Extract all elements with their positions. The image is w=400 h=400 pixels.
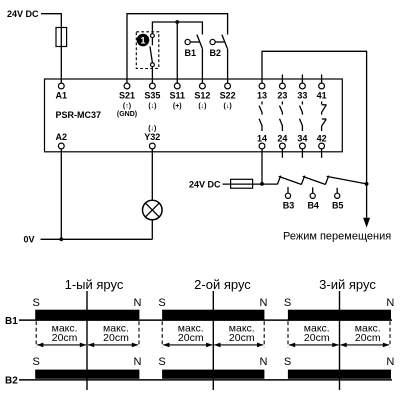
svg-text:S: S bbox=[33, 297, 40, 309]
svg-text:20cm: 20cm bbox=[304, 332, 330, 344]
svg-text:23: 23 bbox=[277, 91, 287, 101]
svg-text:N: N bbox=[386, 297, 394, 309]
svg-text:S: S bbox=[33, 356, 40, 368]
svg-text:20cm: 20cm bbox=[52, 332, 78, 344]
svg-text:24V DC: 24V DC bbox=[7, 9, 39, 19]
svg-text:A2: A2 bbox=[56, 132, 68, 142]
svg-text:N: N bbox=[260, 297, 268, 309]
svg-text:1: 1 bbox=[140, 35, 145, 45]
svg-text:(↓): (↓) bbox=[224, 103, 232, 110]
svg-text:41: 41 bbox=[317, 91, 327, 101]
svg-text:20cm: 20cm bbox=[229, 332, 255, 344]
svg-text:B5: B5 bbox=[332, 201, 344, 211]
svg-text:S: S bbox=[284, 356, 291, 368]
svg-text:42: 42 bbox=[317, 134, 327, 144]
svg-text:S11: S11 bbox=[169, 91, 185, 101]
svg-text:(↑): (↑) bbox=[123, 103, 131, 110]
svg-text:B1: B1 bbox=[185, 48, 197, 58]
svg-text:20cm: 20cm bbox=[355, 332, 381, 344]
svg-text:1-ый ярус: 1-ый ярус bbox=[65, 277, 124, 292]
svg-text:24: 24 bbox=[277, 134, 287, 144]
svg-text:S22: S22 bbox=[220, 91, 236, 101]
svg-text:PSR-MC37: PSR-MC37 bbox=[56, 110, 102, 120]
svg-text:N: N bbox=[260, 356, 268, 368]
svg-text:Режим перемещения: Режим перемещения bbox=[283, 231, 391, 243]
svg-text:N: N bbox=[134, 356, 142, 368]
svg-text:B2: B2 bbox=[5, 376, 18, 387]
svg-text:S12: S12 bbox=[194, 91, 210, 101]
svg-text:Y32: Y32 bbox=[144, 132, 160, 142]
svg-text:B3: B3 bbox=[283, 201, 295, 211]
svg-text:S: S bbox=[158, 297, 165, 309]
svg-text:34: 34 bbox=[297, 134, 307, 144]
svg-text:S21: S21 bbox=[119, 91, 135, 101]
svg-text:20cm: 20cm bbox=[103, 332, 129, 344]
svg-text:13: 13 bbox=[257, 91, 267, 101]
svg-text:(↓): (↓) bbox=[148, 103, 156, 110]
svg-text:3-ий ярус: 3-ий ярус bbox=[319, 277, 376, 292]
svg-text:33: 33 bbox=[297, 91, 307, 101]
svg-text:2-ой ярус: 2-ой ярус bbox=[194, 277, 251, 292]
svg-text:N: N bbox=[134, 297, 142, 309]
svg-text:(+): (+) bbox=[173, 103, 182, 110]
svg-text:14: 14 bbox=[257, 134, 267, 144]
svg-text:B1: B1 bbox=[5, 316, 18, 327]
svg-text:B2: B2 bbox=[210, 48, 222, 58]
svg-text:24V DC: 24V DC bbox=[189, 180, 221, 190]
svg-text:S35: S35 bbox=[144, 91, 160, 101]
svg-text:S: S bbox=[284, 297, 291, 309]
svg-text:N: N bbox=[386, 356, 394, 368]
svg-text:(GND): (GND) bbox=[117, 111, 137, 118]
svg-text:B4: B4 bbox=[307, 201, 319, 211]
svg-text:A1: A1 bbox=[56, 91, 68, 101]
svg-text:0V: 0V bbox=[24, 234, 35, 244]
svg-text:20cm: 20cm bbox=[178, 332, 204, 344]
svg-text:(↓): (↓) bbox=[198, 103, 206, 110]
svg-text:S: S bbox=[158, 356, 165, 368]
